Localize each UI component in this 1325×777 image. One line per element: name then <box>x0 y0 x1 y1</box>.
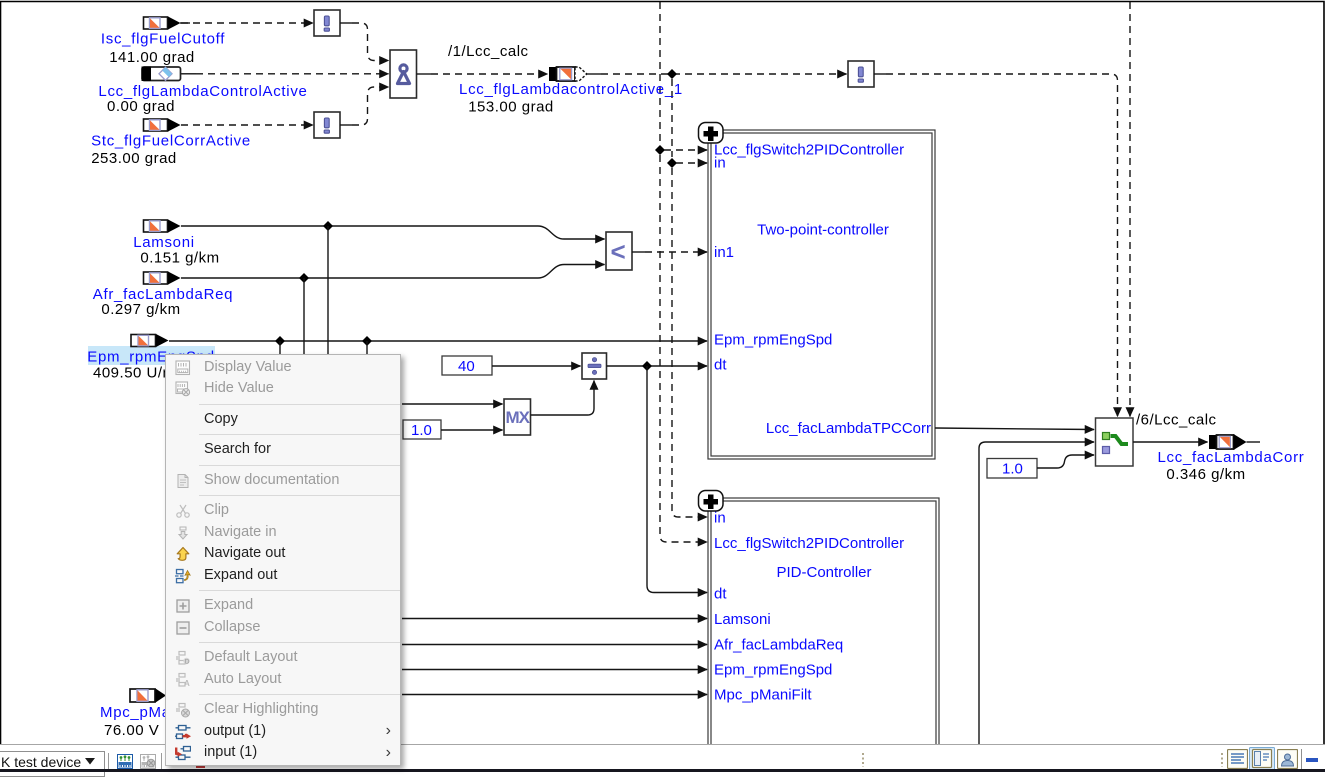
menu separator <box>199 465 400 466</box>
constant 40 box <box>442 356 492 375</box>
svg-text:dt: dt <box>714 586 727 603</box>
wire Afr_facLambdaReq to comparator <box>181 265 605 279</box>
wire icon to dash start <box>180 22 190 24</box>
constant 1.0 box (left) <box>403 420 441 439</box>
svg-text:Stc_flgFuelCorrActive: Stc_flgFuelCorrActive <box>91 133 251 150</box>
wire Lcc_flgLambdaControlActive to AND input2 (dashed) <box>181 73 389 75</box>
wire vertical dashed from top to switch input (right) <box>1129 2 1131 417</box>
menu separator <box>199 694 400 695</box>
menu item Navigate in <box>166 522 400 544</box>
junction + branch to TPC port1 <box>655 145 707 155</box>
svg-text:Mpc_pManiFilt: Mpc_pManiFilt <box>714 687 812 704</box>
menu separator <box>199 642 400 643</box>
menu item output (1) <box>166 721 400 743</box>
wire TPCCorr out to switch <box>935 428 1094 430</box>
menu item Expand out <box>166 565 400 587</box>
NOT gate U4 (!) top right <box>848 61 874 87</box>
divide block <box>582 353 607 379</box>
expand badge PID <box>699 491 724 512</box>
menu separator <box>199 404 400 405</box>
label Isc_flgFuelCutoff <box>101 31 225 67</box>
input icon Mpc_pManiFilt <box>130 689 166 703</box>
wire NOT2 to AND input3 <box>340 87 389 125</box>
menu item Clear Highlighting <box>166 700 400 722</box>
bottom dark band <box>0 769 1325 772</box>
partially hidden red icon under menu <box>196 763 205 768</box>
svg-text:Lcc_flgLambdacontrolActive_1: Lcc_flgLambdacontrolActive_1 <box>459 81 683 98</box>
wire Mpc to PID <box>402 694 707 696</box>
svg-text:Lamsoni: Lamsoni <box>714 611 771 628</box>
view icon split (active) <box>1249 747 1275 771</box>
input icon Epm_rpmEngSpd <box>131 334 169 347</box>
svg-text:/1/Lcc_calc: /1/Lcc_calc <box>448 43 529 60</box>
junction + branch to TPC port2 in <box>667 158 707 168</box>
svg-text:A: A <box>184 679 190 688</box>
menu item Navigate out <box>166 544 400 566</box>
junction node on /1 line <box>667 69 677 79</box>
menu item Display Value <box>166 357 400 379</box>
expand badge Two-point <box>699 123 724 144</box>
svg-text:Epm_rpmEngSpd: Epm_rpmEngSpd <box>714 332 832 349</box>
svg-text:Lcc_flgSwitch2PIDController: Lcc_flgSwitch2PIDController <box>714 535 904 552</box>
toolbar separator <box>0 744 1325 745</box>
NOT gate U2 (!) <box>314 112 340 138</box>
view icon person <box>1277 749 1298 769</box>
wire switch out to output icon <box>1133 441 1208 443</box>
svg-text:Isc_flgFuelCutoff: Isc_flgFuelCutoff <box>101 31 225 48</box>
svg-text:in: in <box>714 155 726 172</box>
label Epm_rpmEngSpd (selected) <box>87 349 215 382</box>
wire comparator out to in1 (dashed) <box>632 251 707 253</box>
menu item Default Layout <box>166 648 400 670</box>
dotted separator right group <box>1220 751 1224 769</box>
svg-text:PID-Controller: PID-Controller <box>776 564 871 581</box>
svg-text:<: < <box>611 237 626 267</box>
input icon Lcc_flgLambdaControlActive <box>142 67 181 81</box>
wire PID out vertical up to switch input2 <box>979 442 1094 745</box>
NOT gate U1 (!) <box>314 10 340 36</box>
wire vertical dashed A x=660 from top <box>660 2 707 542</box>
svg-text:Lcc_facLambdaTPCCorr: Lcc_facLambdaTPCCorr <box>766 420 931 437</box>
svg-text:Epm_rpmEngSpd: Epm_rpmEngSpd <box>714 662 832 679</box>
svg-text:153.00 grad: 153.00 grad <box>468 99 554 116</box>
AND gate U3 (&) <box>390 50 417 98</box>
wire Lamsoni to comparator <box>181 226 605 239</box>
menu item Copy <box>166 409 400 431</box>
toolbar separator bar <box>108 753 109 770</box>
toolbar icon display-value (color) <box>117 754 133 769</box>
junction Epm branch to MX <box>362 336 372 355</box>
toolbar separator bar 2 <box>161 753 162 770</box>
selection highlight Epm_rpmEngSpd <box>88 346 215 365</box>
toolbar icon hide-value (gray) <box>140 754 156 769</box>
wire 1.0 to MX in2 <box>441 429 503 431</box>
svg-text:/6/Lcc_calc: /6/Lcc_calc <box>1136 412 1217 429</box>
wire MX out up to divide bottom <box>531 381 595 416</box>
output icon Lcc_facLambdaCorr <box>1209 434 1260 450</box>
svg-text:Two-point-controller: Two-point-controller <box>757 222 889 239</box>
wire 1.0 to switch input3 <box>1037 455 1094 468</box>
menu item Auto Layout <box>166 669 400 691</box>
menu item Search for <box>166 440 400 462</box>
output icon Lcc_flgLambdacontrolActive_1 <box>549 67 587 81</box>
svg-text:in: in <box>714 510 726 527</box>
wire 40 to divide <box>492 365 581 367</box>
wire vertical dashed B x=672 from /1 junction <box>672 79 707 517</box>
junction Epm branch to PID <box>275 336 285 355</box>
wire Stc_flgFuelCorrActive to NOT2 (dashed) <box>169 124 313 126</box>
comparator block (<) <box>606 232 632 270</box>
svg-text:MX: MX <box>506 408 531 427</box>
menu item Expand <box>166 596 400 618</box>
svg-text:0.151 g/km: 0.151 g/km <box>140 250 219 267</box>
separator line right <box>1301 749 1302 769</box>
constant 1.0 box (right) <box>987 459 1037 479</box>
wire AND output to port icon <box>417 73 548 75</box>
MX mux block <box>504 399 531 435</box>
switch block U7 <box>1096 418 1134 466</box>
label Lcc_facLambdaCorr <box>1158 449 1305 483</box>
dotted separator left of status <box>861 751 865 769</box>
input icon Isc_flgFuelCutoff <box>144 17 181 30</box>
svg-text:0.00 grad: 0.00 grad <box>107 98 175 115</box>
wire Epm to PID <box>402 669 707 671</box>
label Lamsoni <box>133 234 219 267</box>
label Mpc_pManiFilt <box>100 704 207 739</box>
svg-text:141.00 grad: 141.00 grad <box>109 49 195 66</box>
label Stc_flgFuelCorrActive <box>91 133 251 168</box>
svg-text:D: D <box>185 658 190 665</box>
wire MX in1 from behind menu <box>402 403 503 405</box>
device combo box <box>0 751 105 777</box>
wire divide out to dt + junction down <box>607 361 708 593</box>
svg-text:40: 40 <box>458 358 475 375</box>
Two-point-controller block U5 <box>708 130 935 459</box>
svg-text:Lcc_flgSwitch2PIDController: Lcc_flgSwitch2PIDController <box>714 142 904 159</box>
menu item Show documentation <box>166 470 400 492</box>
svg-text:Lcc_facLambdaCorr: Lcc_facLambdaCorr <box>1158 449 1305 466</box>
PID-Controller block U6 <box>708 498 939 751</box>
input icon Stc_flgFuelCorrActive <box>144 119 181 132</box>
wire output icon to junction and NOT3 (dashed) <box>587 73 847 75</box>
menu separator <box>199 590 400 591</box>
wire Isc_flgFuelCutoff to NOT1 (dashed) <box>169 22 313 24</box>
svg-text:dt: dt <box>714 357 727 374</box>
menu item Clip <box>166 501 400 523</box>
svg-text:Lamsoni: Lamsoni <box>133 234 195 251</box>
context menu <box>165 354 401 766</box>
junction Lamsoni branch <box>323 221 333 355</box>
view icon list <box>1227 749 1248 769</box>
svg-text:253.00 grad: 253.00 grad <box>91 150 177 167</box>
wires into PID data ports from behind menu <box>402 618 707 620</box>
input icon Afr_facLambdaReq <box>144 272 181 285</box>
svg-text:1.0: 1.0 <box>1002 461 1023 478</box>
label /1/Lcc_calc <box>448 43 529 60</box>
label Lcc_flgLambdaControlActive <box>98 83 307 115</box>
blue dash minimize <box>1306 758 1318 762</box>
svg-text:1.0: 1.0 <box>411 422 432 439</box>
menu item Hide Value <box>166 379 400 401</box>
wire Afr to PID <box>402 644 707 646</box>
wire Epm_rpmEngSpd to Two-point Epm port <box>169 340 707 342</box>
bottom toolbar <box>0 745 1325 769</box>
menu item Collapse <box>166 617 400 639</box>
input icon Lamsoni <box>144 220 181 233</box>
wire NOT1 to AND input1 <box>340 23 389 61</box>
svg-text:0.297 g/km: 0.297 g/km <box>101 301 180 318</box>
label Lcc_flgLambdacontrolActive_1 <box>459 81 683 116</box>
svg-text:in1: in1 <box>714 244 734 261</box>
label /6/Lcc_calc <box>1136 412 1217 429</box>
menu separator <box>199 434 400 435</box>
label Afr_facLambdaReq <box>93 286 233 318</box>
menu item input (1) <box>166 743 400 765</box>
wire NOT3 output right then down to switch (dashed) <box>874 74 1118 417</box>
menu separator <box>199 495 400 496</box>
svg-text:Afr_facLambdaReq: Afr_facLambdaReq <box>714 637 843 654</box>
junction Afr branch <box>299 273 309 355</box>
svg-text:76.00 V: 76.00 V <box>104 722 159 739</box>
svg-text:0.346 g/km: 0.346 g/km <box>1166 466 1245 483</box>
